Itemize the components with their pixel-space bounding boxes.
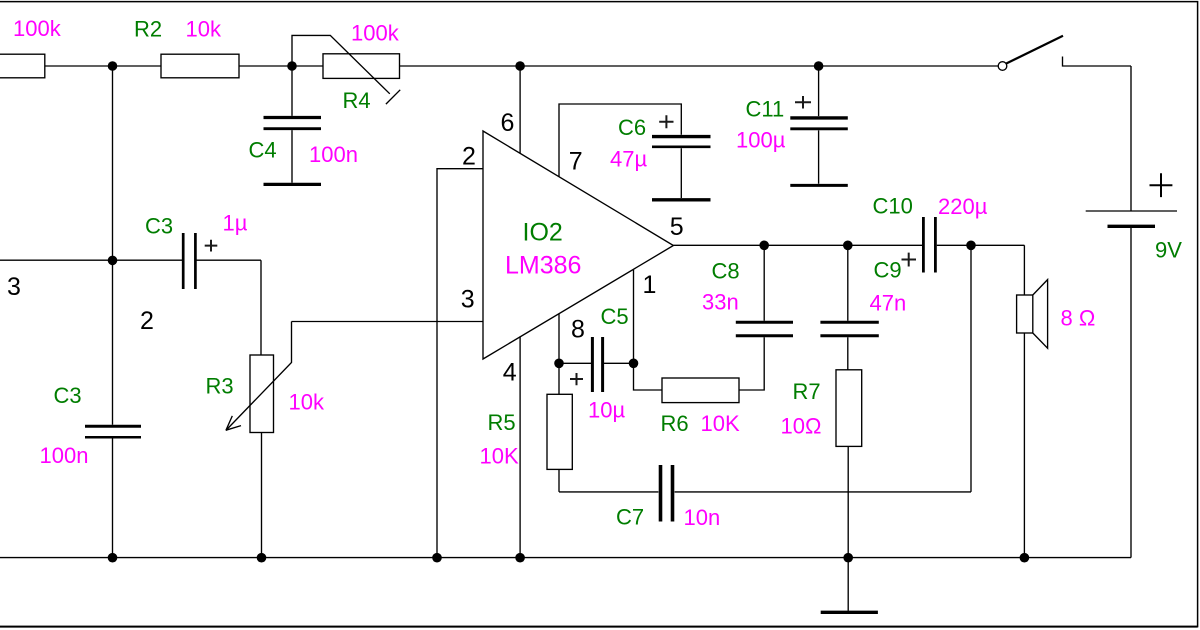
- svg-text:10n: 10n: [684, 505, 721, 530]
- svg-text:47n: 47n: [870, 291, 907, 316]
- svg-text:10K: 10K: [480, 444, 519, 469]
- svg-text:LM386: LM386: [505, 252, 581, 280]
- svg-text:C4: C4: [249, 138, 277, 163]
- svg-text:C5: C5: [601, 304, 629, 329]
- svg-text:2: 2: [462, 142, 476, 170]
- svg-text:4: 4: [503, 359, 517, 387]
- svg-text:10µ: 10µ: [588, 398, 625, 423]
- svg-text:2: 2: [140, 307, 154, 335]
- svg-text:3: 3: [461, 286, 475, 314]
- svg-text:R4: R4: [343, 88, 371, 113]
- svg-text:R7: R7: [793, 379, 821, 404]
- svg-text:100k: 100k: [13, 16, 62, 41]
- svg-text:R3: R3: [206, 374, 234, 399]
- svg-text:10k: 10k: [289, 390, 325, 415]
- svg-text:7: 7: [569, 148, 583, 176]
- svg-text:10Ω: 10Ω: [781, 414, 822, 439]
- svg-text:1: 1: [643, 271, 657, 299]
- svg-text:100k: 100k: [351, 21, 400, 46]
- svg-text:8 Ω: 8 Ω: [1061, 306, 1096, 331]
- svg-text:C3: C3: [145, 214, 173, 239]
- svg-text:3: 3: [7, 273, 21, 301]
- svg-text:6: 6: [501, 109, 515, 137]
- svg-text:100n: 100n: [309, 142, 358, 167]
- svg-text:C8: C8: [712, 259, 740, 284]
- svg-text:R5: R5: [488, 410, 516, 435]
- svg-text:1µ: 1µ: [223, 211, 248, 236]
- svg-text:C10: C10: [873, 194, 913, 219]
- svg-text:C6: C6: [618, 115, 646, 140]
- svg-text:100µ: 100µ: [736, 128, 786, 153]
- svg-text:10k: 10k: [186, 17, 222, 42]
- svg-text:C3: C3: [54, 383, 82, 408]
- svg-text:C11: C11: [746, 97, 785, 122]
- svg-text:5: 5: [670, 213, 684, 241]
- svg-text:47µ: 47µ: [610, 147, 647, 172]
- svg-text:IO2: IO2: [523, 219, 563, 247]
- svg-text:R2: R2: [134, 17, 162, 42]
- svg-text:10K: 10K: [701, 411, 740, 436]
- svg-text:C9: C9: [874, 258, 902, 283]
- svg-text:9V: 9V: [1155, 238, 1182, 263]
- svg-text:100n: 100n: [40, 443, 89, 468]
- svg-text:R6: R6: [661, 411, 689, 436]
- svg-text:8: 8: [571, 316, 585, 344]
- svg-text:C7: C7: [616, 505, 644, 530]
- svg-text:33n: 33n: [702, 290, 739, 315]
- svg-text:220µ: 220µ: [938, 194, 988, 219]
